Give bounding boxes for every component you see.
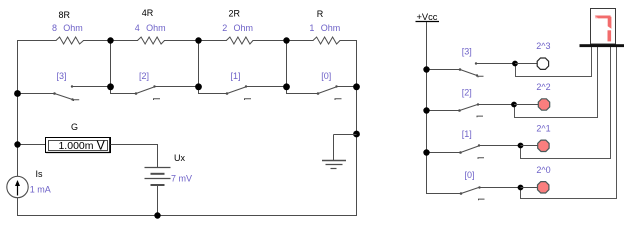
galvanometer G box [46,138,111,153]
wire ground branch [334,134,357,136]
svg-text:2^1: 2^1 [536,123,550,133]
wire vertical node B [198,41,200,87]
node C [283,37,289,43]
switch S2 [111,87,199,101]
svg-text:4: 4 [135,23,140,33]
node battery-bottom [154,212,160,218]
svg-text:7 mV: 7 mV [171,174,192,184]
wire top node B to 2R [199,40,227,42]
node P3 [512,61,518,67]
wire top rail left [18,40,57,42]
wire top node C to R [287,40,314,42]
wire return P0 [521,47,617,199]
wire right rail [356,87,358,216]
wire top node A to 4R [111,40,138,42]
wire top 2R to node C [253,40,287,42]
node C2 [283,83,290,90]
svg-text:Is: Is [36,169,44,179]
switch S0 [287,87,357,101]
switch S3 [18,87,111,102]
svg-text:Ohm: Ohm [321,23,341,33]
svg-text:2^2: 2^2 [536,82,550,92]
svg-text:[3]: [3] [57,71,67,81]
svg-text:G: G [71,122,78,132]
battery Ux [145,168,171,186]
wire top 8R to node A [84,40,111,42]
segment b [608,17,612,29]
svg-text:2: 2 [222,23,227,33]
wire lamp lead L3 [515,63,537,65]
switch K2 [427,105,515,118]
svg-text:8R: 8R [59,10,71,20]
svg-text:Ux: Ux [174,153,185,163]
wire left rail [17,41,19,177]
wire bottom rail [18,215,357,217]
node B [195,37,201,43]
wire vertical node A [110,41,112,87]
wire lamp lead L2 [514,104,538,106]
lamp 2^0 on [538,182,549,193]
node P1 [518,143,524,149]
wire vertical node C [286,41,288,87]
wire return P2 [515,47,598,118]
resistor R3 2R [226,37,253,44]
lamp 2^2 on [538,99,549,110]
wire meter to battery [111,145,158,168]
ground [322,135,346,169]
switch S1 [199,87,287,101]
wire top 4R to node B [165,40,199,42]
node P2 [511,102,517,108]
lamp 2^3 off [537,58,548,69]
wire return P1 [521,47,611,159]
wire top right corner [340,41,357,87]
segment a [595,16,611,19]
current source Is [7,176,28,197]
seven segment display U1 [591,9,616,45]
segment c [608,30,612,41]
node rail-K2 [423,107,429,113]
svg-text:[0]: [0] [465,170,475,180]
node D2 [353,83,360,90]
node rail-K1 [423,149,429,155]
node A2 [107,83,114,90]
svg-text:2^0: 2^0 [536,165,550,175]
resistor R2 4R [138,37,165,44]
node rail-S3 [14,90,21,97]
svg-text:1 mA: 1 mA [30,185,51,195]
wire Vcc rail [427,22,462,194]
svg-text:[1]: [1] [231,71,241,81]
svg-text:1.000m: 1.000m [58,140,93,152]
svg-text:2R: 2R [229,9,241,19]
wire meter row [18,144,46,146]
wire left rail lower [17,198,19,216]
svg-text:R: R [317,9,324,19]
svg-text:4R: 4R [142,8,154,18]
svg-text:1: 1 [309,23,314,33]
svg-text:+Vcc: +Vcc [417,12,438,22]
svg-text:[0]: [0] [321,71,331,81]
node ground-rail [353,131,360,138]
svg-text:V: V [97,139,106,153]
svg-text:[3]: [3] [462,47,472,57]
switch K0 [461,187,521,200]
node meter-rail [14,141,20,147]
power +Vcc [416,12,440,22]
svg-text:Ohm: Ohm [234,23,254,33]
svg-text:Ohm: Ohm [63,23,83,33]
node rail-K3 [423,66,429,72]
wire lamp lead L0 [521,187,538,189]
node A [107,37,113,43]
svg-text:2^3: 2^3 [536,41,550,51]
lamp 2^1 on [538,140,549,151]
svg-text:Ohm: Ohm [146,23,166,33]
svg-text:8: 8 [52,23,57,33]
wire battery to bottom [157,186,159,216]
switch K1 [427,146,521,159]
node B2 [195,83,202,90]
wire return P3 [516,47,592,77]
bus bar [580,44,624,47]
wire lamp lead L1 [521,145,538,147]
svg-text:[2]: [2] [462,88,472,98]
node P0 [518,185,524,191]
svg-text:[1]: [1] [462,129,472,139]
resistor R4 R [313,37,340,44]
resistor R1 8R [56,37,84,44]
svg-text:[2]: [2] [139,71,149,81]
switch K3 [427,64,516,78]
